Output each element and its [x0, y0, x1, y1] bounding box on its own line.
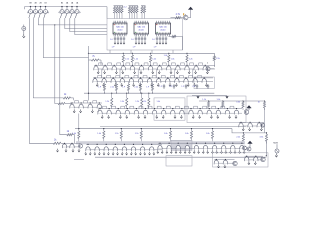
resistor network RN1	[113, 6, 127, 19]
transistor ROW4BQ3	[175, 143, 181, 154]
transistor Q30	[244, 110, 249, 115]
resistor R11 inside box	[169, 35, 183, 50]
transistor ROW4Q5	[121, 144, 127, 155]
resistor R30 1k	[53, 140, 61, 145]
transistor ROW3LQ1	[70, 101, 79, 113]
transistor ROW2Q1	[93, 76, 102, 87]
ground BL	[65, 149, 67, 152]
switch jack B4	[59, 3, 66, 19]
transistor ROW1Q8	[158, 63, 167, 74]
wire main bus B	[84, 92, 214, 94]
transistor QB2	[70, 143, 74, 148]
transistor ROW3Q5	[134, 106, 143, 118]
capacitor C20	[159, 84, 165, 89]
wire right drop	[266, 140, 267, 156]
wire W3 from 2B	[38, 18, 107, 25]
box output module	[213, 153, 269, 167]
svg-text:2.2k: 2.2k	[236, 137, 240, 139]
node busA x168.8	[168, 53, 169, 54]
wire W1b	[61, 142, 64, 144]
svg-text:1k: 1k	[258, 102, 260, 104]
ground BL	[78, 149, 80, 152]
svg-text:MDB: MDB	[273, 142, 278, 144]
transistor ROW5BQ1	[245, 156, 250, 165]
wire top bus	[25, 7, 108, 10]
wire ROW1 rail	[94, 65, 215, 69]
transistor ROW3Q14	[216, 106, 225, 118]
wire busD feeds	[78, 114, 80, 129]
wire link r1-r2	[155, 69, 157, 78]
transistor Q20	[206, 62, 214, 71]
wire bus D right	[232, 129, 267, 133]
resistor network RN3	[141, 6, 146, 19]
transistor ROW4BQ9	[230, 143, 236, 154]
transistor ROW4BQ4	[184, 143, 190, 154]
resistor Rr2-2	[110, 82, 117, 94]
resistor Re243.0 3.3k	[236, 100, 244, 110]
svg-text:SAJ 110: SAJ 110	[137, 26, 146, 29]
svg-text:1.2k: 1.2k	[135, 101, 139, 103]
box generator module	[107, 19, 183, 51]
transistor ROW1Q6	[139, 63, 148, 74]
wire W1 from B8	[29, 18, 53, 143]
box gray module	[171, 140, 192, 150]
transistor ROW2Q4	[120, 76, 129, 87]
svg-text:1.1k: 1.1k	[115, 133, 119, 135]
transistor ROW3Q15	[225, 106, 234, 118]
resistor R31 1k	[63, 94, 70, 99]
transistor ROW1Q11	[185, 63, 194, 74]
transistor ROW2Q2	[102, 76, 111, 87]
transistor ROW2Q10	[175, 76, 184, 87]
box row3 module 1	[154, 98, 185, 120]
resistor Rf212.5 1.0k	[206, 128, 214, 142]
transistor ROW1Q3	[112, 63, 121, 74]
connector J2 MDB	[275, 144, 279, 153]
svg-text:1.0k: 1.0k	[72, 133, 76, 135]
resistor Rf103.8 1.0k	[97, 128, 105, 142]
transistor ROW3Q13	[207, 106, 216, 118]
transistor QB3	[78, 144, 82, 148]
wire ROW4B rail	[158, 143, 244, 148]
svg-text:2.2k: 2.2k	[110, 87, 114, 89]
wire busA feed	[88, 46, 90, 101]
transistor ROW3Q1	[98, 106, 107, 118]
wire ROW3 rail	[98, 109, 242, 114]
resistor R14 corner 4.5k	[213, 56, 220, 67]
resistor Rb150.6 1.2k	[150, 53, 157, 65]
svg-text:1.2k: 1.2k	[189, 58, 193, 60]
resistor R13 1.4k	[164, 55, 168, 57]
transistor ROW2Q3	[111, 76, 120, 87]
resistor R33 1k	[67, 131, 73, 136]
transistor ROW2Q6	[138, 76, 147, 87]
wire R10-Q10	[171, 17, 184, 19]
node busA x187.0	[186, 53, 187, 54]
transistor ROW4BQ10	[239, 143, 245, 154]
transistor ROW1Q4	[121, 63, 130, 74]
transistor Q51	[261, 157, 265, 161]
wire box bottoms rail	[100, 125, 246, 127]
capacitor C23	[192, 84, 198, 89]
transistor ROW2Q8	[157, 76, 166, 87]
bar gray bus strip	[76, 141, 245, 144]
transistor ROW4Q7	[139, 144, 145, 155]
switch jack 1A	[74, 2, 81, 19]
wire ROW5A rail	[214, 160, 234, 164]
resistor Rc126.7 1.3k	[120, 93, 127, 109]
transistor ROW3Q4	[125, 106, 134, 118]
switch jack 4A	[64, 2, 71, 19]
node busA x132.4	[132, 53, 133, 54]
transistor ROW2Q9	[166, 76, 175, 87]
svg-text:SAJ 110: SAJ 110	[159, 26, 168, 29]
transistor ROW3LQ3	[88, 101, 97, 113]
wire W6 from B4	[60, 18, 67, 135]
svg-text:B8: B8	[29, 3, 31, 5]
resistor Rr2-3	[122, 82, 129, 94]
transistor ROW1Q10	[176, 63, 185, 74]
node busA x150.6	[150, 53, 151, 54]
wire ROW3L rail	[70, 103, 102, 107]
node busA x88.5	[88, 53, 89, 54]
transistor ROW3Q16	[234, 108, 238, 118]
svg-text:1.3k: 1.3k	[120, 101, 124, 103]
svg-text:divider: divider	[160, 28, 166, 31]
box row2 right module	[194, 77, 214, 89]
power arrow P30	[247, 105, 252, 110]
transistor ROW5BQ2	[254, 156, 258, 165]
transistor ROW3Q10	[180, 106, 189, 118]
transistor ROW1Q5	[130, 63, 139, 74]
wire Q10 collector	[188, 8, 191, 17]
node busA x123.3	[123, 53, 124, 54]
wire RN feed	[106, 7, 108, 19]
svg-text:1.2k: 1.2k	[143, 101, 147, 103]
wire W5b	[65, 103, 72, 105]
label Q10 id	[183, 13, 187, 16]
svg-text:B4: B4	[61, 3, 63, 5]
capacitor bank C2	[131, 36, 146, 48]
ground bus triangle 1	[196, 96, 199, 98]
svg-text:1.0k: 1.0k	[185, 133, 189, 135]
wire link r1-r2	[174, 69, 176, 78]
wire W6b	[73, 135, 75, 144]
transistor ROW4Q3	[103, 144, 109, 155]
transistor ROW3Q7	[152, 106, 161, 118]
transistor ROW3Q3	[116, 106, 125, 118]
resistor Rb132.4 1.2k	[131, 53, 138, 65]
svg-text:1.0k: 1.0k	[97, 133, 101, 135]
capacitor C24	[207, 84, 209, 89]
switch jack 2B	[37, 3, 44, 19]
wire W2b	[71, 98, 74, 100]
resistor Rf78.8 1.0k	[72, 128, 80, 142]
wire W8 from 2A	[70, 18, 107, 32]
wire bottom rail	[95, 156, 266, 158]
transistor ROW4Q4	[112, 144, 118, 155]
svg-text:1.4k: 1.4k	[171, 58, 175, 60]
wire W5 tap	[54, 24, 58, 103]
node busB	[126, 93, 127, 94]
resistor Rg243.4 2.2k	[236, 132, 244, 143]
box bottom right module	[166, 156, 192, 166]
wire bus B right	[192, 94, 227, 96]
resistor Rr2-4	[134, 82, 141, 94]
transistor ROW3Q9	[171, 106, 180, 118]
svg-text:SAJ 110: SAJ 110	[116, 26, 125, 29]
ground BL	[72, 149, 74, 152]
resistor Rr2-1	[98, 82, 105, 94]
transistor Q31	[261, 123, 265, 127]
resistor Rd208.5 1.1k	[202, 99, 209, 107]
svg-text:1.1k: 1.1k	[135, 133, 139, 135]
svg-text:3.3k: 3.3k	[260, 137, 264, 139]
transistor ROW4BQ5	[193, 143, 199, 154]
wire ROW4 rail	[86, 144, 162, 149]
wire link r1-r2	[192, 69, 194, 78]
wire W7 from 4A	[65, 18, 107, 29]
capacitor C22	[181, 84, 187, 89]
resistor R12 7k	[89, 56, 102, 65]
resistor Rf170.5 1.0k	[164, 128, 172, 142]
svg-text:1.6k: 1.6k	[157, 101, 161, 103]
transistor ROW2Q11	[184, 76, 193, 87]
connector J input	[22, 25, 26, 34]
transistor ROW4BQ7	[211, 143, 217, 154]
wire link r1-r2	[137, 69, 139, 78]
wire BL rail	[62, 143, 80, 147]
resistor network RN2	[128, 6, 138, 19]
wire ROW5B rail	[245, 156, 263, 160]
resistor Rb168.8 1.4k	[168, 53, 175, 65]
IC U3 SAJ110	[156, 21, 171, 36]
resistor Rf121.3 1.1k	[115, 128, 123, 142]
node busB	[148, 93, 149, 94]
transistor ROW4Q2	[94, 144, 100, 155]
resistor Rr2-5	[146, 82, 153, 94]
ground bus triangle 2	[225, 96, 228, 98]
resistor Rb123.3 1.5k	[122, 53, 129, 65]
node busB	[88, 93, 89, 94]
svg-text:1.2k: 1.2k	[152, 58, 156, 60]
power arrow P40	[248, 141, 253, 147]
svg-text:1.1k: 1.1k	[202, 99, 206, 101]
switch jack 4B	[32, 3, 39, 19]
resistor Rf141.3 1.1k	[135, 128, 143, 142]
transistor ROW4BQ1	[157, 143, 163, 154]
switch jack 2A	[69, 2, 76, 19]
wire W4 from 1B	[43, 18, 88, 58]
transistor ROW2Q7	[147, 76, 156, 87]
wire ROW2 rail	[93, 78, 213, 82]
svg-text:1.0k: 1.0k	[164, 133, 168, 135]
capacitor bank C1	[110, 36, 125, 48]
transistor ROW1Q2	[103, 63, 112, 74]
transistor ROW1Q1	[94, 63, 103, 74]
svg-text:1.2k: 1.2k	[134, 58, 138, 60]
transistor Q40	[243, 146, 247, 150]
svg-text:2.2k: 2.2k	[134, 87, 138, 89]
wire link r1-r2	[119, 69, 121, 78]
wire r3b feed	[264, 108, 266, 133]
transistor QB1	[62, 143, 66, 148]
transistor ROW4BQ8	[220, 143, 226, 154]
transistor ROW3Q6	[143, 106, 152, 118]
IC U2 SAJ110	[134, 21, 149, 36]
resistor Re264.5 1k	[258, 100, 266, 110]
transistor ROW2Q5	[129, 76, 138, 87]
transistor ROW2Q12	[193, 76, 202, 87]
svg-text:1.5k: 1.5k	[216, 58, 220, 60]
svg-text:1.2k: 1.2k	[105, 101, 109, 103]
transistor ROW3Q11	[189, 106, 198, 118]
node busB	[111, 93, 112, 94]
transistor ROW1Q9	[167, 63, 176, 74]
transistor ROW3LQ2	[79, 101, 88, 113]
resistor Rc148.8 1.2k	[143, 93, 150, 109]
node busB	[141, 93, 142, 94]
transistor ROW5AQ2	[223, 159, 227, 168]
wire bus C right	[199, 100, 265, 103]
transistor ROW4BQ6	[202, 143, 208, 154]
capacitor bank C3	[152, 36, 167, 48]
transistor ROW3BQ1	[239, 122, 244, 131]
svg-text:1.0k: 1.0k	[206, 133, 210, 135]
svg-text:1.5k: 1.5k	[125, 58, 129, 60]
IC U1 SAJ110	[113, 21, 127, 36]
resistor Rc141.7 1.2k	[135, 93, 142, 109]
capacitor C21	[169, 84, 175, 89]
resistor R10 4.7k	[175, 14, 180, 19]
resistor Rb187.0 1.2k	[186, 53, 193, 65]
svg-text:divider: divider	[117, 28, 123, 31]
transistor ROW4BQ2	[166, 143, 172, 154]
transistor ROW3Q12	[198, 106, 207, 118]
wire box stubs	[110, 50, 173, 53]
resistor Rd222.8 1.0k	[217, 99, 224, 107]
wire ROW3B rail	[239, 122, 264, 126]
transistor Q10	[183, 15, 188, 20]
transistor Q41	[247, 147, 251, 151]
transistor ROW4Q8	[148, 144, 154, 155]
svg-text:divider: divider	[138, 28, 144, 31]
transistor ROW2Q13	[202, 77, 207, 86]
ground input jack	[22, 34, 25, 38]
ground J2	[275, 153, 277, 157]
transistor ROW3LQ4	[97, 102, 101, 112]
svg-text:1.0k: 1.0k	[217, 99, 221, 101]
box row3 module 2	[187, 96, 246, 123]
wire bottom left stub	[74, 158, 84, 160]
svg-text:1.4k: 1.4k	[164, 55, 168, 57]
transistor ROW3Q2	[107, 106, 116, 118]
resistor Rg266.5 3.3k	[260, 132, 268, 143]
wire link r1-r2	[101, 69, 103, 78]
transistor ROW5AQ1	[214, 159, 219, 168]
wire W9 from 1A	[75, 18, 107, 34]
resistor Rc111.7 1.2k	[105, 93, 112, 109]
wire W2 from 4B	[33, 18, 63, 98]
switch jack B8	[27, 3, 34, 19]
power +V arrow	[188, 7, 193, 10]
ground BL	[56, 149, 58, 152]
transistor ROW1Q7	[148, 63, 157, 74]
transistor ROW3BQ3	[257, 122, 262, 131]
switch jack 1B	[42, 3, 49, 19]
svg-text:3.3k: 3.3k	[236, 102, 240, 104]
transistor ROW1Q13	[203, 65, 208, 74]
wire main bus A	[89, 53, 215, 56]
resistor R32	[58, 102, 65, 104]
transistor ROW4Q1	[85, 144, 91, 155]
resistor Rf191.5 1.0k	[185, 128, 193, 142]
label MDB output	[273, 142, 278, 144]
transistor Q50	[233, 161, 237, 165]
transistor ROW4Q6	[130, 144, 136, 155]
transistor ROW3Q8	[162, 106, 171, 118]
wire main bus D	[75, 128, 232, 130]
transistor ROW1Q12	[194, 63, 203, 74]
transistor ROW3BQ2	[248, 122, 252, 131]
